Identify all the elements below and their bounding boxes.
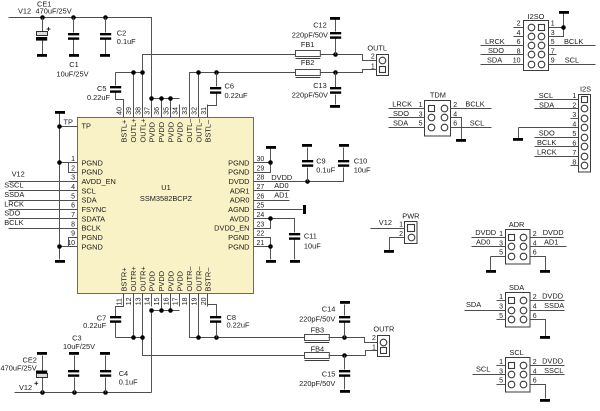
ground for ADR pin5 [486, 270, 496, 273]
svg-text:SDA: SDA [466, 300, 481, 309]
svg-text:220pF/50V: 220pF/50V [292, 30, 328, 39]
svg-text:3: 3 [71, 175, 75, 182]
svg-text:220pF/50V: 220pF/50V [299, 314, 335, 323]
ground for ADR pin6 [540, 270, 550, 273]
svg-text:4: 4 [71, 184, 75, 191]
wire DVDD (pin 28) to C9/C10 [254, 168, 344, 182]
svg-text:23: 23 [257, 221, 265, 228]
capacitor C1 10uF/25V [68, 18, 79, 55]
svg-text:C14: C14 [322, 304, 336, 313]
svg-text:24: 24 [257, 212, 265, 219]
svg-text:10: 10 [513, 58, 521, 65]
wire SSDA [9, 200, 78, 202]
ground for SCL pin6 [540, 399, 550, 402]
svg-text:FB2: FB2 [301, 58, 315, 67]
svg-text:BCLK: BCLK [564, 37, 583, 46]
svg-text:OUTR+: OUTR+ [129, 266, 138, 291]
capacitor C10 10uF [338, 148, 349, 167]
ground for I2S pin4 [513, 138, 523, 141]
svg-text:3: 3 [572, 112, 576, 119]
svg-text:SDO: SDO [539, 129, 555, 138]
wire OUTL- net (pins 32,33 to FB2) [190, 73, 296, 118]
svg-text:PVDD: PVDD [148, 271, 157, 292]
svg-text:ADR: ADR [509, 220, 525, 229]
junction pin 36 PVDD [159, 96, 164, 101]
ground for C12 [330, 17, 340, 20]
svg-text:PVDD: PVDD [157, 122, 166, 143]
ground above pin 30 [266, 146, 276, 149]
svg-text:7: 7 [572, 150, 576, 157]
svg-text:ADR0: ADR0 [230, 196, 250, 205]
wire SCL pin2 DVDD [531, 365, 565, 367]
wire ADR pin2 DVDD [531, 237, 564, 239]
svg-text:BCLK: BCLK [465, 100, 484, 109]
connector I2SO [524, 21, 549, 71]
wire FB4 to OUTR pin 1 [329, 351, 378, 356]
svg-text:PVDD: PVDD [166, 122, 175, 143]
ferrite bead FB3 [305, 335, 330, 343]
svg-text:AVDD_EN: AVDD_EN [82, 177, 116, 186]
svg-text:SDATA: SDATA [82, 214, 106, 223]
wire ADR pin1 DVDD [472, 237, 506, 239]
svg-text:V12: V12 [12, 169, 25, 178]
wire TDM pin6 SCL [451, 127, 492, 129]
svg-text:19: 19 [191, 297, 198, 305]
junction C1/V12 rail [71, 15, 76, 20]
svg-text:1: 1 [499, 231, 503, 238]
junction pin 35 PVDD [168, 96, 173, 101]
svg-text:6: 6 [453, 121, 457, 128]
wire PWR pin2 to ground [390, 238, 405, 251]
svg-text:V12: V12 [18, 7, 31, 16]
wire ADR pin5 to ground [491, 257, 506, 271]
svg-text:3: 3 [551, 30, 555, 37]
I2SO pin stubs [514, 28, 557, 55]
ground below pin 21 [266, 260, 276, 263]
ferrite bead FB4 [305, 353, 330, 361]
connector I2S [579, 95, 591, 173]
wire FB3 to OUTR pin 2 [329, 338, 378, 343]
svg-text:10uF/25V: 10uF/25V [63, 342, 95, 351]
svg-text:SSCL: SSCL [544, 366, 563, 375]
svg-text:21: 21 [257, 240, 265, 247]
svg-text:PWR: PWR [402, 211, 419, 220]
node V12 top rail [9, 18, 152, 118]
connector TDM [425, 101, 451, 137]
svg-text:PVDD: PVDD [166, 271, 175, 292]
wire ADR1 (pin 27) AD0 [254, 190, 290, 192]
svg-text:OUTL–: OUTL– [185, 118, 194, 143]
svg-text:SCL: SCL [82, 186, 96, 195]
junction pin 10 ground bus [57, 244, 62, 249]
svg-text:1: 1 [371, 63, 375, 70]
ground for C1 [69, 54, 79, 57]
svg-text:OUTR: OUTR [373, 324, 394, 333]
junction pin 14 PVDD [149, 308, 154, 313]
svg-text:2: 2 [533, 359, 537, 366]
svg-text:470uF/25V: 470uF/25V [36, 6, 72, 15]
svg-text:4: 4 [533, 304, 537, 311]
svg-text:C1: C1 [69, 60, 78, 69]
svg-text:FB4: FB4 [311, 344, 325, 353]
svg-text:13: 13 [135, 297, 142, 305]
wire PVDD bottom tie (pins 14-17) and V12 riser [152, 294, 180, 393]
svg-text:40: 40 [117, 107, 124, 115]
junction C8/OUTR- [214, 335, 219, 340]
svg-text:OUTL–: OUTL– [194, 118, 203, 143]
junction pin 19 OUTR- [196, 335, 201, 340]
ground below C15 [340, 390, 350, 393]
junction C2/V12 rail [103, 15, 108, 20]
svg-text:0.22uF: 0.22uF [227, 320, 250, 329]
svg-text:ADR1: ADR1 [230, 186, 250, 195]
capacitor C9 0.1uF [302, 148, 313, 182]
junction C6/OUTL- [214, 70, 219, 75]
svg-text:PVDD: PVDD [148, 122, 157, 143]
svg-text:SCL: SCL [539, 91, 553, 100]
ground below pin 10 [55, 260, 65, 263]
svg-text:5: 5 [499, 378, 503, 385]
capacitor C12 220pF/50V [330, 20, 341, 55]
svg-text:5: 5 [419, 121, 423, 128]
connector SCL [506, 358, 531, 393]
svg-text:1: 1 [419, 102, 423, 109]
svg-text:15: 15 [154, 297, 161, 305]
svg-text:FSYNC: FSYNC [82, 205, 108, 214]
junction pin 12 OUTR+ [131, 335, 136, 340]
svg-text:7: 7 [551, 48, 555, 55]
svg-text:SCL: SCL [565, 55, 579, 64]
wire SDA pin4 SSDA [531, 310, 565, 312]
svg-text:35: 35 [163, 107, 170, 115]
wire OUTL+ net (pins 38,39 to FB1) [116, 55, 296, 118]
wire TDM pin5 SDA [389, 127, 425, 129]
svg-text:14: 14 [145, 297, 152, 305]
wire I2S pin5 SDO [535, 137, 579, 139]
svg-text:BCLK: BCLK [537, 138, 556, 147]
svg-text:0.1uF: 0.1uF [117, 37, 136, 46]
svg-text:OUTR–: OUTR– [185, 266, 194, 292]
wire AVDD_EN V12 [9, 181, 78, 183]
svg-text:5: 5 [499, 250, 503, 257]
ground for TDM pin4 [456, 139, 466, 142]
svg-text:TP: TP [82, 122, 92, 131]
junction pin 1 ground bus [57, 160, 62, 165]
svg-text:V12: V12 [379, 218, 392, 227]
capacitor C6 0.22uF (bootstrap L-) [208, 73, 222, 118]
svg-text:26: 26 [257, 193, 265, 200]
wire TDM pin1 LRCK [389, 108, 425, 110]
svg-text:AD0: AD0 [476, 238, 490, 247]
svg-text:SCL: SCL [509, 348, 523, 357]
wire SCL pin6 to ground [531, 385, 546, 399]
svg-text:PVDD: PVDD [157, 271, 166, 292]
wire PVDD top tie (pins 34-37) [152, 99, 180, 118]
wire ADR pin6 to ground [531, 257, 546, 271]
junction C3/V12 rail [72, 390, 77, 395]
svg-text:0.1uF: 0.1uF [316, 165, 335, 174]
svg-text:DVDD: DVDD [475, 228, 496, 237]
svg-text:SDA: SDA [539, 100, 554, 109]
wire I2S pin7 LRCK [535, 156, 579, 158]
junction dot FB2/C13 [333, 70, 338, 75]
svg-text:SDO: SDO [488, 46, 504, 55]
svg-text:39: 39 [126, 107, 133, 115]
svg-text:2: 2 [517, 21, 521, 28]
svg-text:10uF: 10uF [354, 165, 371, 174]
svg-text:C10: C10 [354, 157, 368, 166]
ground above C9 [302, 144, 312, 147]
svg-text:220pF/50V: 220pF/50V [299, 379, 335, 388]
junction pin 15 PVDD [159, 308, 164, 313]
ground above C4 [100, 352, 110, 355]
ground for C13 [330, 105, 340, 108]
svg-text:0.22uF: 0.22uF [87, 93, 110, 102]
ferrite bead FB1 [296, 51, 321, 59]
svg-text:37: 37 [145, 107, 152, 115]
junction dot I2SO ground [561, 25, 566, 30]
ground above CE2 [37, 352, 47, 355]
svg-text:PGND: PGND [82, 242, 103, 251]
wire ADR pin4 AD1 [531, 246, 567, 248]
svg-text:SSDA: SSDA [4, 190, 24, 199]
svg-text:22: 22 [257, 231, 265, 238]
wire SDA pin5 stub [497, 319, 506, 321]
junction CE2/V12 rail [40, 390, 45, 395]
junction pin 39 OUTL+ [131, 70, 136, 75]
wire OUTR+ net (pins 12,13 to FB4) [116, 294, 305, 356]
junction dot FB3/C14 [342, 335, 347, 340]
capacitor CE1 470uF/25V [36, 18, 50, 55]
svg-text:FB1: FB1 [301, 40, 315, 49]
capacitor C5 0.22uF (bootstrap L+) [110, 73, 124, 118]
svg-text:OUTR+: OUTR+ [138, 266, 147, 291]
svg-text:I2S: I2S [580, 85, 591, 94]
svg-text:5: 5 [71, 193, 75, 200]
connector OUTR [378, 336, 390, 357]
wire I2S pin1 SCL [535, 99, 579, 101]
svg-text:1: 1 [71, 156, 75, 163]
junction dot FB4/C15 [342, 353, 347, 358]
svg-text:DVDD: DVDD [542, 292, 563, 301]
junction CE1/V12 rail [40, 15, 45, 20]
wire FB1 to OUTL pin 2 [321, 55, 377, 61]
svg-text:BSTR–: BSTR– [204, 267, 213, 292]
svg-text:8: 8 [71, 221, 75, 228]
capacitor C14 220pF/50V [339, 305, 350, 338]
wire I2S pin3 stub [571, 118, 579, 120]
capacitor C2 0.1uF [100, 18, 111, 55]
capacitor C11 10uF [289, 233, 300, 260]
svg-text:PGND: PGND [228, 233, 249, 242]
svg-text:36: 36 [154, 107, 161, 115]
junction pin 13 OUTR+ [140, 335, 145, 340]
wire I2SO pin10 SDA [481, 64, 524, 66]
svg-text:6: 6 [533, 378, 537, 385]
svg-text:2: 2 [533, 231, 537, 238]
svg-text:10uF/25V: 10uF/25V [56, 69, 88, 78]
wire SDA pin1 stub [497, 300, 506, 302]
svg-text:FB3: FB3 [311, 325, 325, 334]
svg-text:SDO: SDO [393, 109, 409, 118]
svg-text:DVDD: DVDD [542, 356, 563, 365]
wire I2SO pin6 LRCK [481, 45, 524, 47]
capacitor C15 220pF/50V [339, 356, 350, 390]
svg-text:18: 18 [182, 297, 189, 305]
ground below C11 [290, 260, 300, 263]
svg-text:LRCK: LRCK [485, 37, 505, 46]
wire TDM pin3 SDO [389, 117, 425, 119]
svg-text:V12: V12 [19, 383, 32, 392]
ground for SDA pin6 [540, 336, 550, 339]
junction dot DVDD/C9 [305, 179, 310, 184]
ground for PWR [384, 250, 394, 253]
wire I2SO pin1/pin3 to ground [549, 14, 564, 37]
svg-text:C11: C11 [304, 231, 317, 240]
svg-text:AD0: AD0 [274, 181, 288, 190]
wire TDM pin2 BCLK [451, 108, 492, 110]
svg-text:SDA: SDA [82, 196, 97, 205]
op-amp U1 SSM3582BCPZ body [78, 118, 254, 294]
svg-text:AVDD: AVDD [230, 214, 250, 223]
svg-text:DVDD_EN: DVDD_EN [214, 224, 249, 233]
capacitor C7 0.22uF (bootstrap R+) [110, 294, 124, 338]
svg-text:220pF/50V: 220pF/50V [292, 91, 328, 100]
svg-text:PGND: PGND [228, 168, 249, 177]
svg-text:AD1: AD1 [274, 191, 288, 200]
wire AVDD/DVDD_EN (pins 23,24) to C11 [254, 219, 295, 233]
wire AGND (pin 25) to ground [254, 209, 303, 211]
svg-text:1: 1 [372, 345, 376, 352]
svg-text:1: 1 [499, 359, 503, 366]
svg-text:LRCK: LRCK [537, 148, 557, 157]
svg-text:6: 6 [71, 203, 75, 210]
connector ADR [506, 230, 531, 265]
svg-text:SDA: SDA [509, 283, 524, 292]
svg-text:BSTL+: BSTL+ [120, 120, 129, 143]
ground for I2SO [559, 11, 569, 14]
svg-text:5: 5 [572, 131, 576, 138]
svg-text:0.1uF: 0.1uF [119, 378, 138, 387]
svg-text:9: 9 [551, 58, 555, 65]
wire I2S pin6 BCLK [535, 146, 579, 148]
wire SDO (pin7) [9, 218, 78, 220]
U1 pin stubs [69, 105, 263, 307]
svg-text:AD1: AD1 [544, 238, 558, 247]
svg-text:U1: U1 [161, 183, 170, 192]
svg-text:9: 9 [71, 231, 75, 238]
ground above C14 [340, 301, 350, 304]
wire PGND pins 21,22 to ground [254, 238, 271, 260]
connector OUTL [377, 55, 389, 76]
ground above C10 [339, 144, 349, 147]
wire V12 to PWR pin1 [371, 228, 405, 230]
svg-text:TP: TP [64, 117, 74, 126]
wire PGND pins 29,30 to ground [254, 149, 271, 173]
svg-text:25: 25 [257, 203, 265, 210]
node V12 bottom rail [15, 392, 152, 394]
capacitor C4 0.1uF [100, 356, 111, 393]
ground above C3 [69, 352, 79, 355]
wire FB2 to OUTL pin 1 [321, 70, 377, 73]
wire SCL pin1 stub [497, 365, 506, 367]
svg-text:AGND: AGND [228, 205, 249, 214]
wire I2S pin8 stub [571, 165, 579, 167]
svg-text:PGND: PGND [228, 158, 249, 167]
svg-text:PVDD: PVDD [176, 122, 185, 143]
svg-text:LRCK: LRCK [4, 199, 24, 208]
svg-text:12: 12 [126, 297, 133, 305]
connector SDA [506, 293, 531, 328]
connector PWR [405, 222, 418, 244]
svg-text:2: 2 [453, 102, 457, 109]
svg-text:PGND: PGND [228, 242, 249, 251]
wire I2SO pin8 SDO [481, 54, 524, 56]
junction C4/V12 rail [103, 390, 108, 395]
svg-text:TDM: TDM [430, 90, 446, 99]
svg-text:SDA: SDA [393, 119, 408, 128]
svg-text:C13: C13 [313, 81, 327, 90]
svg-text:27: 27 [257, 184, 265, 191]
svg-text:28: 28 [257, 175, 265, 182]
svg-text:10uF: 10uF [304, 242, 321, 251]
svg-text:C15: C15 [322, 369, 336, 378]
wire TDM pin4 to ground [451, 118, 462, 140]
svg-text:0.22uF: 0.22uF [83, 321, 106, 330]
svg-text:32: 32 [191, 107, 198, 115]
svg-text:OUTR–: OUTR– [194, 266, 203, 292]
svg-text:7: 7 [71, 212, 75, 219]
svg-text:30: 30 [257, 156, 265, 163]
capacitor C13 220pF/50V [330, 73, 341, 105]
svg-text:SDA: SDA [487, 55, 502, 64]
capacitor C8 0.22uF (bootstrap R-) [208, 294, 222, 338]
svg-text:29: 29 [257, 165, 265, 172]
wire SDA pin2 DVDD [531, 300, 565, 302]
wire SSCL [9, 190, 78, 192]
svg-text:1: 1 [551, 21, 555, 28]
wire ADR0 (pin 26) AD1 [254, 200, 290, 202]
svg-text:4: 4 [517, 30, 521, 37]
wire SCL pin5 stub [497, 384, 506, 386]
svg-text:PVDD: PVDD [176, 271, 185, 292]
svg-text:SSM3582BCPZ: SSM3582BCPZ [140, 194, 193, 203]
svg-text:SCL: SCL [476, 365, 490, 374]
svg-text:31: 31 [201, 107, 208, 115]
svg-text:PGND: PGND [82, 233, 103, 242]
svg-text:470uF/25V: 470uF/25V [1, 364, 37, 373]
svg-text:16: 16 [163, 297, 170, 305]
ferrite bead FB2 [296, 70, 321, 78]
capacitor CE2 470uF/25V [34, 356, 47, 393]
wire I2S pin4 to ground [519, 128, 579, 139]
wire I2SO pin5 BCLK [549, 45, 596, 47]
wire SCL pin3 SCL [473, 374, 506, 376]
ground above TP [55, 111, 65, 114]
svg-text:2: 2 [371, 54, 375, 61]
ground for CE1 [37, 54, 47, 57]
svg-text:PGND: PGND [82, 168, 103, 177]
ground for C2 [100, 54, 110, 57]
svg-text:2: 2 [71, 165, 75, 172]
junction pin 32 OUTL- [196, 70, 201, 75]
svg-text:DVDD: DVDD [229, 177, 250, 186]
svg-text:DVDD: DVDD [543, 228, 564, 237]
svg-text:I2SO: I2SO [528, 12, 545, 21]
svg-text:SCL: SCL [470, 119, 484, 128]
wire LRCK (pin6) [9, 209, 78, 211]
svg-text:17: 17 [173, 297, 180, 305]
